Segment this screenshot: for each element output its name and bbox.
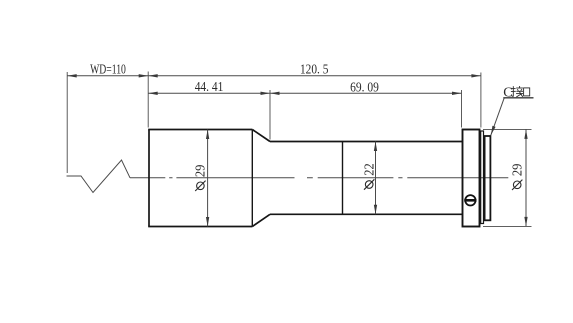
dimension Φ22 middle (375, 142, 377, 215)
接 glyph (512, 86, 514, 96)
svg-text:120. 5: 120. 5 (300, 62, 328, 77)
extension line front face (147, 72, 149, 128)
dimension WD=110 (67, 75, 148, 77)
口 glyph (524, 88, 530, 96)
spacer ring (481, 131, 484, 224)
middle barrel (Φ22) (270, 141, 463, 143)
taper cone top (252, 130, 270, 142)
extension lines Φ29 rear (483, 128, 532, 130)
svg-text:22: 22 (363, 163, 378, 176)
extension line flange front (461, 90, 463, 128)
svg-text:C: C (503, 86, 512, 101)
centerline (axis, dash-dot) (130, 177, 149, 179)
C-mount ring (485, 136, 491, 220)
dimension 69.09 (270, 92, 462, 94)
svg-text:69. 09: 69. 09 (350, 80, 379, 95)
clamp screw (465, 195, 475, 205)
svg-text:29: 29 (194, 165, 209, 178)
taper cone bottom (252, 214, 270, 226)
extension line rear (480, 73, 482, 128)
extension line left (WD) (66, 72, 68, 173)
dimension Φ29 rear (525, 129, 527, 226)
dimension 44.41 (148, 92, 270, 94)
dimension Φ29 front (207, 130, 209, 227)
taper joint line (251, 130, 253, 227)
extension line taper end (269, 90, 271, 140)
svg-text:44. 41: 44. 41 (195, 80, 224, 95)
dimension 120.5 (148, 75, 481, 77)
svg-text:29: 29 (511, 164, 526, 177)
break/zigzag symbol (object side) (67, 160, 131, 193)
lens body: front barrel (Φ29) (148, 130, 462, 227)
barrel joint line (342, 142, 344, 215)
leader C-mount (491, 98, 505, 136)
svg-text:WD=110: WD=110 (90, 62, 126, 77)
rear flange (463, 130, 480, 227)
